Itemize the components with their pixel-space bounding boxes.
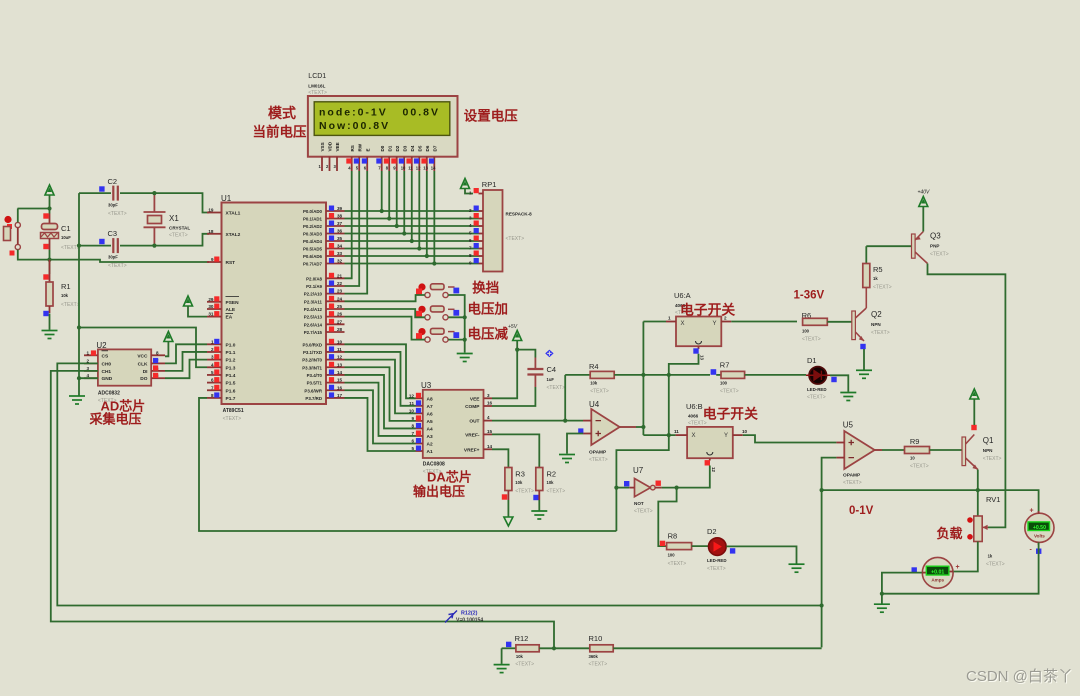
svg-text:1: 1 — [211, 339, 214, 344]
svg-text:<TEXT>: <TEXT> — [720, 389, 739, 395]
resistor R2 — [536, 468, 543, 491]
svg-text:27: 27 — [337, 319, 343, 324]
svg-text:37: 37 — [337, 221, 343, 226]
svg-text:设置电压: 设置电压 — [464, 108, 518, 124]
svg-text:<TEXT>: <TEXT> — [547, 385, 566, 391]
svg-text:R2: R2 — [547, 470, 557, 479]
wire LCD D1 to P0.1 — [388, 171, 390, 219]
svg-text:+5V: +5V — [508, 324, 518, 330]
wire P2.3 to key1 — [345, 295, 425, 301]
wire U4 output net — [636, 426, 643, 428]
svg-text:R7: R7 — [720, 361, 730, 370]
wire RS to P2.0 — [345, 171, 352, 278]
svg-text:P1.5: P1.5 — [226, 381, 236, 387]
transistor Q1 NPN — [962, 437, 966, 466]
svg-text:<TEXT>: <TEXT> — [61, 245, 80, 251]
svg-text:<TEXT>: <TEXT> — [223, 416, 242, 422]
svg-text:6: 6 — [469, 238, 472, 243]
svg-text:电压加: 电压加 — [468, 301, 509, 317]
wire P2.4 to key2 — [345, 309, 425, 317]
wire P0.3 to RP1 pin 5 — [345, 233, 479, 235]
svg-text:15: 15 — [337, 378, 343, 383]
svg-text:P3.1/TXD: P3.1/TXD — [303, 350, 322, 355]
svg-text:5: 5 — [211, 370, 214, 375]
wire R12 to R10 — [539, 647, 590, 649]
svg-text:RW: RW — [357, 143, 362, 151]
svg-text:39: 39 — [337, 206, 343, 211]
svg-text:EA: EA — [226, 315, 233, 321]
svg-text:<TEXT>: <TEXT> — [668, 561, 687, 567]
svg-text:Q2: Q2 — [871, 310, 882, 319]
svg-text:<TEXT>: <TEXT> — [802, 337, 821, 343]
svg-text:R12(2): R12(2) — [461, 611, 478, 617]
wire voltmeter minus — [882, 543, 1039, 594]
svg-text:<TEXT>: <TEXT> — [515, 489, 534, 495]
svg-text:LCD1: LCD1 — [308, 73, 326, 80]
wire E to P2.2 — [345, 171, 368, 294]
capacitor C1 — [49, 214, 51, 225]
wire Q3 emitter — [922, 207, 924, 232]
power VCC arrow top-left — [45, 185, 54, 195]
wire R6 to Q2 base — [827, 321, 852, 323]
svg-text:R5: R5 — [873, 265, 883, 274]
svg-text:P3.5/T1: P3.5/T1 — [307, 381, 323, 386]
resistor R5 — [865, 246, 867, 263]
svg-text:VSS: VSS — [320, 142, 325, 151]
wire — [517, 350, 535, 358]
wire P1.7 long net — [199, 398, 616, 531]
svg-text:P1.6: P1.6 — [226, 388, 236, 394]
svg-text:node:0-1V 00.8V: node:0-1V 00.8V — [319, 107, 440, 119]
svg-text:P1.2: P1.2 — [226, 358, 236, 364]
svg-text:A8: A8 — [427, 396, 433, 402]
svg-text:P2.5/A13: P2.5/A13 — [304, 315, 323, 320]
svg-text:U6:B: U6:B — [686, 402, 703, 411]
svg-text:电压减: 电压减 — [468, 326, 509, 342]
wire U6B Y to U5 — [743, 435, 837, 442]
wire D1 to ground — [830, 375, 848, 392]
wire P3.1 to U3 A7 — [345, 352, 416, 406]
power down arrow — [504, 517, 513, 526]
svg-text:<TEXT>: <TEXT> — [589, 662, 608, 668]
svg-text:14: 14 — [487, 444, 493, 449]
svg-text:10k: 10k — [515, 480, 523, 485]
svg-text:VDD: VDD — [328, 141, 333, 151]
svg-text:36: 36 — [337, 229, 343, 234]
svg-text:采集电压: 采集电压 — [89, 412, 142, 427]
svg-text:P2.2/A10: P2.2/A10 — [304, 292, 323, 297]
svg-text:<TEXT>: <TEXT> — [707, 566, 726, 572]
wire VREF- to R2 — [492, 434, 539, 468]
svg-text:P0.2/AD2: P0.2/AD2 — [303, 224, 323, 229]
svg-text:P2.6/A14: P2.6/A14 — [304, 322, 323, 327]
ground — [42, 331, 58, 339]
svg-text:10k: 10k — [61, 293, 69, 298]
svg-text:U7: U7 — [633, 466, 644, 475]
svg-text:8: 8 — [469, 253, 472, 258]
svg-text:Y: Y — [724, 433, 728, 439]
wire U6B enable to U7 — [662, 466, 710, 488]
wire Q1 collector — [973, 399, 975, 425]
svg-text:P1.7: P1.7 — [226, 396, 236, 402]
wire to U6A X input — [643, 321, 666, 323]
wire P0.5 to RP1 pin 7 — [345, 248, 479, 250]
svg-text:<TEXT>: <TEXT> — [930, 252, 949, 258]
wire P3.2 to U3 A6 — [345, 360, 416, 414]
wire Q1 emitter to RV1 — [977, 470, 979, 517]
svg-text:100: 100 — [720, 381, 728, 386]
power arrow U2 VCC — [164, 332, 173, 342]
svg-text:38: 38 — [337, 214, 343, 219]
svg-text:1-36V: 1-36V — [794, 290, 825, 302]
svg-text:OPAMP: OPAMP — [589, 450, 607, 456]
wire Q2 emitter to ground — [863, 349, 865, 370]
svg-text:+0.01: +0.01 — [931, 569, 944, 575]
svg-text:<TEXT>: <TEXT> — [590, 389, 609, 395]
svg-text:18: 18 — [208, 229, 214, 234]
svg-text:P3.7/RD: P3.7/RD — [305, 396, 322, 401]
ground — [856, 370, 872, 378]
wire P3.4 to U3 A4 — [345, 375, 416, 428]
voltage probe R12(2) — [445, 611, 457, 623]
wire U6A Y to R6 — [731, 321, 797, 323]
wire U2 CLK to P1.0 — [165, 344, 207, 363]
svg-text:VCC: VCC — [137, 353, 148, 359]
wire keys common to ground — [448, 295, 465, 353]
wire U2 CH1 sense — [51, 371, 554, 648]
svg-text:P0.0/AD0: P0.0/AD0 — [303, 209, 323, 214]
svg-text:100: 100 — [802, 329, 810, 334]
svg-text:12: 12 — [337, 355, 343, 360]
ground — [531, 511, 547, 519]
svg-text:P0.4/AD4: P0.4/AD4 — [303, 239, 323, 244]
svg-text:<TEXT>: <TEXT> — [169, 233, 188, 239]
power arrow EA pin — [184, 296, 193, 306]
svg-text:R3: R3 — [515, 470, 525, 479]
svg-text:CSDN @白茶丫: CSDN @白茶丫 — [966, 668, 1073, 685]
node marker blue diamond — [545, 350, 553, 358]
svg-text:X: X — [692, 433, 696, 439]
svg-text:10k: 10k — [516, 654, 524, 659]
svg-text:100: 100 — [668, 553, 676, 558]
svg-text:RESPACK-8: RESPACK-8 — [506, 212, 533, 217]
svg-text:15: 15 — [487, 429, 493, 434]
svg-text:A2: A2 — [427, 441, 433, 447]
svg-text:P0.5/AD5: P0.5/AD5 — [303, 247, 323, 252]
svg-text:D2: D2 — [395, 145, 400, 151]
svg-text:P3.2/INT0: P3.2/INT0 — [302, 358, 322, 363]
wire P3.5 to U3 A3 — [345, 383, 416, 436]
svg-text:9: 9 — [211, 257, 214, 262]
svg-text:模式: 模式 — [268, 105, 296, 121]
wire D2 to ground — [726, 546, 796, 563]
svg-text:4: 4 — [211, 362, 214, 367]
svg-text:12: 12 — [416, 166, 421, 171]
svg-text:9: 9 — [411, 416, 414, 421]
svg-text:CS: CS — [102, 353, 109, 359]
svg-text:R12: R12 — [515, 634, 529, 643]
svg-text:A3: A3 — [427, 434, 433, 440]
svg-text:D3: D3 — [402, 145, 407, 151]
wire ground net to P1.3 — [79, 328, 207, 368]
wire U2 CH0 sense — [57, 363, 821, 605]
svg-text:30: 30 — [208, 304, 214, 309]
svg-text:负载: 负载 — [937, 526, 963, 541]
svg-text:7: 7 — [411, 431, 414, 436]
svg-text:VEE: VEE — [335, 142, 340, 151]
wire R10 to feedback — [613, 647, 821, 649]
svg-text:P1.1: P1.1 — [226, 350, 236, 356]
svg-text:5: 5 — [469, 231, 472, 236]
wire U3 OUT to U4 — [492, 420, 583, 422]
wire ammeter plus — [953, 571, 956, 573]
svg-text:VREF+: VREF+ — [464, 447, 480, 453]
wire P0.0 to RP1 pin 2 — [345, 210, 479, 212]
svg-text:10: 10 — [910, 456, 915, 461]
svg-text:30pF: 30pF — [108, 203, 118, 208]
wire P2.5 to key3 — [345, 317, 425, 340]
wire R5 to Q3 base — [866, 245, 911, 247]
wire P3.3 to U3 A5 — [345, 367, 416, 421]
svg-text:<TEXT>: <TEXT> — [871, 330, 890, 336]
svg-text:+: + — [956, 564, 960, 571]
svg-text:Y: Y — [712, 321, 716, 327]
svg-text:8: 8 — [411, 423, 414, 428]
svg-text:32: 32 — [337, 259, 343, 264]
svg-text:C1: C1 — [61, 224, 71, 233]
svg-text:10k: 10k — [590, 381, 598, 386]
svg-text:D4: D4 — [410, 145, 415, 151]
svg-text:10: 10 — [742, 429, 748, 434]
svg-text:换挡: 换挡 — [472, 280, 499, 296]
svg-text:8: 8 — [156, 350, 159, 355]
svg-text:4: 4 — [487, 415, 490, 420]
svg-text:LED-RED: LED-RED — [807, 387, 827, 392]
svg-text:A4: A4 — [427, 426, 433, 432]
svg-text:+0.50: +0.50 — [1033, 525, 1046, 531]
wire Q3 collector rail — [928, 264, 1006, 528]
wire R4 to R7 net — [614, 374, 710, 376]
svg-text:7: 7 — [469, 246, 472, 251]
svg-text:LED-RED: LED-RED — [707, 558, 727, 563]
svg-text:21: 21 — [337, 273, 343, 278]
wire VREF+ to R3 — [492, 449, 508, 468]
svg-text:VREF-: VREF- — [465, 432, 480, 438]
wire P0.4 to RP1 pin 6 — [345, 240, 479, 242]
wire U5 minus feedback — [822, 458, 837, 648]
svg-text:Amps: Amps — [931, 578, 944, 583]
svg-text:RS: RS — [350, 145, 355, 151]
wire P3.6 to U3 A2 — [345, 390, 416, 443]
resistor R3 — [505, 468, 512, 491]
svg-text:30pF: 30pF — [108, 255, 118, 260]
svg-text:35: 35 — [337, 236, 343, 241]
svg-text:2: 2 — [211, 347, 214, 352]
svg-text:电子开关: 电子开关 — [680, 302, 735, 318]
svg-text:10: 10 — [401, 166, 406, 171]
wire R8 to D2 — [692, 545, 709, 547]
wire LCD D3 to P0.3 — [403, 171, 405, 234]
svg-text:D1: D1 — [807, 356, 817, 365]
svg-text:U3: U3 — [421, 381, 432, 390]
wire RW to P2.1 — [345, 171, 360, 286]
svg-text:P0.1/AD1: P0.1/AD1 — [303, 217, 323, 222]
svg-text:P3.6/WR: P3.6/WR — [304, 388, 322, 393]
svg-text:2: 2 — [469, 208, 472, 213]
svg-text:P1.4: P1.4 — [226, 373, 236, 379]
svg-text:电子开关: 电子开关 — [703, 406, 758, 422]
svg-text:+40V: +40V — [918, 190, 930, 196]
svg-text:CH0: CH0 — [102, 361, 112, 367]
svg-text:34: 34 — [337, 244, 343, 249]
wire RV1 bottom — [955, 542, 978, 572]
ground — [494, 665, 510, 673]
svg-text:16: 16 — [337, 385, 343, 390]
pushbutton key 2 — [425, 315, 430, 320]
svg-text:P0.7/AD7: P0.7/AD7 — [303, 262, 323, 267]
svg-text:P2.7/A15: P2.7/A15 — [304, 330, 323, 335]
svg-text:<TEXT>: <TEXT> — [506, 236, 525, 242]
svg-text:3: 3 — [211, 355, 214, 360]
svg-text:A1: A1 — [427, 449, 433, 455]
svg-text:1: 1 — [469, 191, 472, 196]
svg-text:LM016L: LM016L — [308, 84, 325, 89]
svg-text:RV1: RV1 — [986, 495, 1000, 504]
wire U4 plus to ground — [567, 434, 583, 454]
svg-text:Q1: Q1 — [983, 436, 994, 445]
svg-text:10k: 10k — [547, 480, 555, 485]
svg-text:D6: D6 — [425, 145, 430, 151]
svg-text:6: 6 — [411, 438, 414, 443]
svg-text:RST: RST — [226, 260, 236, 266]
wire R12 left to ground — [501, 648, 503, 664]
svg-text:12: 12 — [711, 467, 716, 472]
svg-text:31: 31 — [208, 312, 214, 317]
svg-text:D2: D2 — [707, 527, 717, 536]
svg-text:VEE: VEE — [470, 396, 480, 402]
wire — [78, 193, 80, 395]
wire output sense rail — [822, 490, 1039, 512]
svg-text:<TEXT>: <TEXT> — [108, 263, 127, 269]
power arrow Q1 collector — [970, 389, 979, 399]
svg-text:XTAL1: XTAL1 — [226, 211, 241, 217]
svg-text:P2.4/A12: P2.4/A12 — [304, 307, 323, 312]
svg-text:13: 13 — [423, 166, 428, 171]
svg-text:R8: R8 — [668, 532, 678, 541]
svg-text:P2.3/A11: P2.3/A11 — [304, 299, 323, 304]
svg-text:DA芯片: DA芯片 — [427, 470, 472, 485]
svg-text:9: 9 — [469, 261, 472, 266]
svg-text:<TEXT>: <TEXT> — [589, 457, 608, 463]
wire — [49, 314, 51, 330]
wire P3.7 to U3 A1 — [345, 398, 416, 451]
ground — [789, 564, 805, 572]
svg-text:R1: R1 — [61, 282, 71, 291]
wire U7 input — [616, 487, 629, 489]
svg-text:11: 11 — [408, 166, 413, 171]
svg-text:13: 13 — [700, 355, 705, 360]
svg-text:ADC0832: ADC0832 — [98, 391, 120, 397]
svg-text:P3.4/T0: P3.4/T0 — [307, 373, 323, 378]
svg-text:10: 10 — [409, 408, 415, 413]
svg-text:<TEXT>: <TEXT> — [634, 509, 653, 515]
wire LCD D6 to P0.6 — [426, 171, 428, 256]
svg-text:8: 8 — [211, 393, 214, 398]
svg-text:V=0.100154: V=0.100154 — [456, 617, 483, 623]
svg-text:X1: X1 — [169, 214, 179, 223]
svg-text:25: 25 — [337, 304, 343, 309]
svg-text:13: 13 — [337, 362, 343, 367]
svg-text:GND: GND — [102, 376, 113, 382]
svg-text:C2: C2 — [108, 177, 118, 186]
pushbutton key 3 — [425, 337, 430, 342]
svg-text:PSEN: PSEN — [226, 300, 240, 306]
svg-text:NOT: NOT — [634, 501, 644, 506]
svg-text:14: 14 — [337, 370, 343, 375]
ground — [457, 354, 473, 362]
svg-text:<TEXT>: <TEXT> — [983, 456, 1002, 462]
svg-text:11: 11 — [337, 347, 342, 352]
ammeter — [922, 557, 953, 588]
svg-text:P3.3/INT1: P3.3/INT1 — [302, 365, 322, 370]
svg-text:24: 24 — [337, 296, 343, 301]
svg-text:<TEXT>: <TEXT> — [515, 662, 534, 668]
svg-text:17: 17 — [337, 393, 343, 398]
svg-text:R10: R10 — [589, 634, 603, 643]
svg-text:+: + — [1030, 508, 1034, 515]
transistor Q2 NPN — [852, 311, 856, 340]
svg-text:1: 1 — [668, 316, 671, 321]
svg-text:19: 19 — [208, 208, 214, 213]
wire LCD D4 to P0.4 — [411, 171, 413, 241]
wire P0.6 to RP1 pin 8 — [345, 255, 479, 257]
svg-text:6: 6 — [211, 378, 214, 383]
svg-text:NPN: NPN — [871, 322, 881, 327]
svg-text:P3.0/RXD: P3.0/RXD — [302, 342, 322, 347]
transistor Q3 PNP — [912, 234, 916, 258]
svg-text:A7: A7 — [427, 404, 433, 410]
svg-text:C4: C4 — [547, 365, 557, 374]
svg-text:0-1V: 0-1V — [849, 505, 874, 517]
svg-text:OUT: OUT — [469, 419, 479, 425]
svg-text:<TEXT>: <TEXT> — [986, 562, 1005, 568]
wire LCD D0 to P0.0 — [381, 171, 383, 211]
wire R4 feedback — [564, 375, 566, 421]
svg-text:28: 28 — [337, 327, 343, 332]
wire — [17, 209, 19, 223]
wire U6A enable — [616, 354, 698, 531]
svg-text:AT89C51: AT89C51 — [223, 408, 244, 414]
svg-text:1uF: 1uF — [547, 377, 555, 382]
svg-text:Q3: Q3 — [930, 232, 941, 241]
capacitor C4 — [534, 358, 536, 370]
wire — [18, 208, 50, 210]
svg-text:RP1: RP1 — [482, 180, 497, 189]
svg-text:11: 11 — [674, 429, 679, 434]
svg-text:D5: D5 — [418, 145, 423, 151]
svg-text:4: 4 — [469, 223, 472, 228]
wire P0.2 to RP1 pin 4 — [345, 225, 479, 227]
power arrow RP1 — [461, 179, 470, 189]
svg-text:P1.3: P1.3 — [226, 365, 236, 371]
wire branch to R8 — [658, 488, 676, 546]
svg-text:A5: A5 — [427, 419, 433, 425]
ground — [69, 396, 85, 404]
svg-text:1k: 1k — [988, 554, 993, 559]
svg-text:3: 3 — [487, 393, 490, 398]
svg-text:<TEXT>: <TEXT> — [108, 211, 127, 217]
svg-text:C3: C3 — [108, 229, 118, 238]
